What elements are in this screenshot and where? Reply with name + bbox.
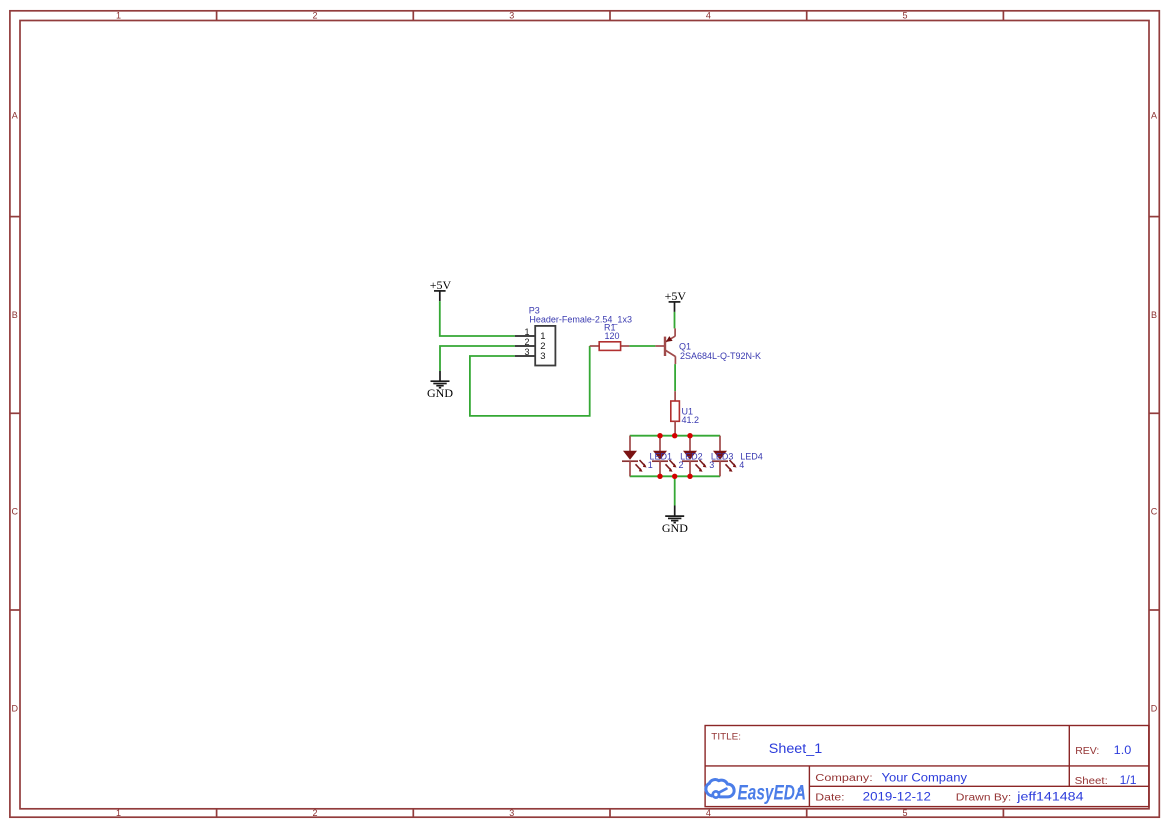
svg-text:3: 3 xyxy=(509,808,514,818)
svg-text:41.2: 41.2 xyxy=(682,415,700,425)
svg-text:Date:: Date: xyxy=(815,792,844,803)
svg-text:3: 3 xyxy=(540,351,545,362)
svg-text:REV:: REV: xyxy=(1075,745,1099,757)
svg-text:LED1: LED1 xyxy=(650,452,673,462)
svg-text:A: A xyxy=(1151,111,1157,121)
svg-text:TITLE:: TITLE: xyxy=(711,732,741,743)
svg-text:1/1: 1/1 xyxy=(1120,775,1137,787)
svg-text:C: C xyxy=(1151,507,1158,517)
svg-text:2: 2 xyxy=(312,808,317,818)
svg-text:1.0: 1.0 xyxy=(1114,745,1132,757)
svg-text:Header-Female-2.54_1x3: Header-Female-2.54_1x3 xyxy=(529,314,632,324)
svg-text:4: 4 xyxy=(706,11,711,21)
svg-text:1: 1 xyxy=(648,460,653,470)
svg-text:5: 5 xyxy=(902,11,907,21)
svg-text:Q1: Q1 xyxy=(679,341,691,351)
svg-text:1: 1 xyxy=(116,11,121,21)
svg-text:+5V: +5V xyxy=(430,278,452,292)
svg-text:GND: GND xyxy=(427,386,453,400)
svg-text:B: B xyxy=(1151,310,1157,320)
svg-text:2: 2 xyxy=(679,460,684,470)
svg-text:2019-12-12: 2019-12-12 xyxy=(863,792,931,804)
svg-text:3: 3 xyxy=(709,460,714,470)
svg-text:D: D xyxy=(11,703,18,713)
svg-text:A: A xyxy=(12,111,18,121)
svg-text:Your Company: Your Company xyxy=(882,772,968,784)
svg-text:C: C xyxy=(11,507,18,517)
svg-text:1: 1 xyxy=(524,327,529,337)
svg-text:1: 1 xyxy=(116,808,121,818)
svg-text:Sheet:: Sheet: xyxy=(1075,775,1108,787)
svg-text:3: 3 xyxy=(509,11,514,21)
svg-text:Drawn By:: Drawn By: xyxy=(956,792,1011,803)
svg-text:120: 120 xyxy=(605,331,620,341)
svg-text:+5V: +5V xyxy=(665,289,687,303)
svg-text:EasyEDA: EasyEDA xyxy=(738,782,807,805)
svg-text:2: 2 xyxy=(524,337,529,347)
svg-text:2: 2 xyxy=(312,11,317,21)
svg-text:Company:: Company: xyxy=(815,773,872,784)
svg-text:3: 3 xyxy=(524,347,529,357)
svg-text:4: 4 xyxy=(739,460,744,470)
svg-text:5: 5 xyxy=(902,808,907,818)
svg-text:GND: GND xyxy=(662,521,688,535)
svg-text:jeff141484: jeff141484 xyxy=(1016,792,1084,804)
svg-text:2SA684L-Q-T92N-K: 2SA684L-Q-T92N-K xyxy=(680,351,761,361)
svg-text:Sheet_1: Sheet_1 xyxy=(769,741,822,756)
svg-text:B: B xyxy=(12,310,18,320)
svg-text:4: 4 xyxy=(706,808,711,818)
svg-text:D: D xyxy=(1151,703,1158,713)
